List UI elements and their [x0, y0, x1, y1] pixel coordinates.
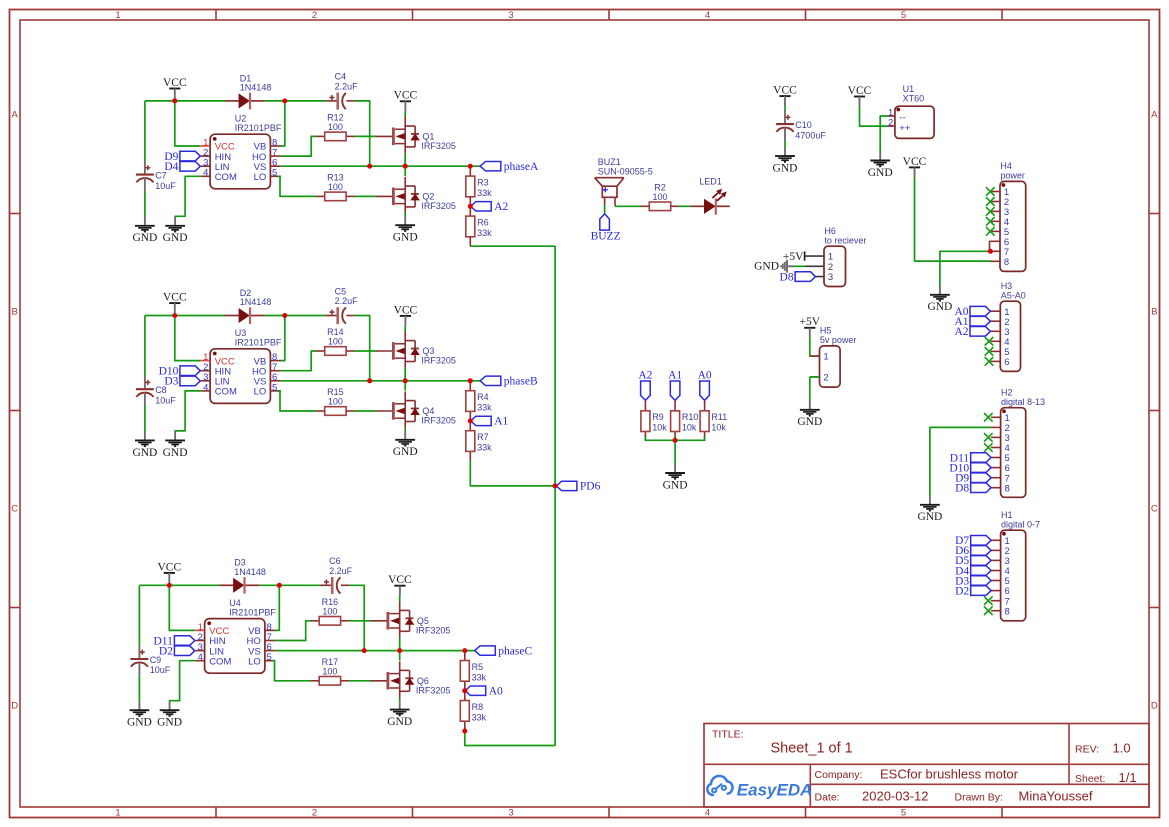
svg-text:8: 8 — [1005, 606, 1010, 617]
wire D1 cathode to C5 / VB branch — [265, 315, 326, 317]
ground at Q2 — [393, 216, 418, 243]
svg-text:1.0: 1.0 — [1113, 741, 1131, 756]
svg-text:A0: A0 — [698, 370, 712, 382]
ground at C8 — [132, 431, 157, 458]
svg-text:H1: H1 — [1001, 510, 1013, 520]
input net flag D3 LIN — [164, 376, 200, 388]
net flag A1 at H3 pin 2 — [954, 316, 990, 328]
svg-text:+5V: +5V — [800, 316, 821, 328]
capacitor C9 10uF bypass — [138, 585, 140, 645]
net flag A2 at R9 — [638, 370, 652, 401]
svg-text:A2: A2 — [494, 201, 508, 213]
wire R15 to Q4 gate — [355, 410, 377, 412]
net flag A1 — [471, 416, 509, 428]
input net flag D4 LIN — [164, 161, 200, 173]
net flag A1 at R10 — [668, 370, 682, 401]
VCC power symbol at H4 — [903, 156, 927, 178]
connector H5 5v power — [810, 326, 857, 387]
gate driver U4 IR2101PBF — [195, 598, 277, 673]
svg-text:ESCfor brushless motor: ESCfor brushless motor — [880, 766, 1019, 781]
svg-text:2.2uF: 2.2uF — [335, 296, 359, 306]
wire R9 R10 R11 commons to ground — [645, 437, 704, 441]
input net flag D11 HIN — [154, 635, 195, 647]
net flag A0 at H3 pin 1 — [954, 306, 990, 318]
svg-text:GND: GND — [132, 447, 157, 459]
svg-text:4: 4 — [705, 808, 710, 819]
svg-text:R16: R16 — [322, 597, 339, 607]
wire VCC to H4 pin8 — [915, 177, 991, 261]
wire COM to ground — [175, 391, 201, 432]
svg-text:5: 5 — [272, 168, 277, 179]
ground at Q4 — [393, 431, 418, 458]
wire R13 to Q2 gate — [355, 195, 377, 197]
svg-text:to reciever: to reciever — [824, 236, 866, 246]
junction VS at half bridge — [397, 648, 402, 653]
svg-text:IRF3205: IRF3205 — [421, 356, 456, 366]
wire VB net vertical — [281, 101, 285, 146]
svg-text:C4: C4 — [335, 72, 347, 82]
wire COM to ground — [175, 176, 201, 217]
wire VS to Q2 drain — [404, 166, 406, 176]
+5V power symbol at H6 — [783, 251, 805, 263]
wire VB net vertical — [281, 316, 285, 361]
wire VS main — [281, 380, 480, 382]
svg-text:LED1: LED1 — [699, 177, 722, 187]
net flag A2 at H3 pin 3 — [954, 326, 990, 338]
svg-text:33k: 33k — [477, 443, 492, 453]
ground at H6 pin2 (rotated) — [754, 260, 794, 273]
svg-text:VCC: VCC — [388, 574, 412, 586]
svg-text:10k: 10k — [652, 423, 667, 433]
net flag D4 at H1 pin 4 — [955, 565, 991, 577]
svg-text:C6: C6 — [329, 556, 341, 566]
buzzer BUZ1 SUN-09055-5 — [595, 157, 653, 206]
svg-text:R5: R5 — [472, 662, 484, 672]
svg-text:1N4148: 1N4148 — [240, 83, 272, 93]
svg-text:LO: LO — [254, 172, 267, 183]
ground at COM — [163, 217, 188, 244]
svg-text:5: 5 — [901, 10, 906, 21]
wire H5 pin2 to ground — [809, 377, 811, 402]
svg-text:EasyEDA: EasyEDA — [737, 780, 813, 799]
svg-text:GND: GND — [393, 232, 418, 244]
svg-text:33k: 33k — [477, 188, 492, 198]
net flag phaseA — [480, 161, 539, 173]
junction VCC rail — [172, 313, 177, 318]
capacitor C7 10uF bypass — [144, 101, 146, 161]
wire VCC top rail block U2 — [145, 100, 225, 102]
svg-text:SUN-09055-5: SUN-09055-5 — [598, 166, 653, 176]
net flag PD6 — [556, 481, 600, 493]
transistor Q1 IRF3205 high side — [376, 117, 456, 153]
svg-text:H3: H3 — [1001, 281, 1013, 291]
junction VB net — [277, 583, 282, 588]
wire HO to R16 — [275, 621, 311, 641]
ground at Q6 — [387, 701, 412, 728]
VCC power symbol at U4 — [157, 561, 181, 583]
net flag D3 at H1 pin 5 — [955, 575, 991, 587]
net flag D8 at H2 pin 8 — [955, 483, 991, 495]
svg-text:1: 1 — [115, 10, 120, 21]
capacitor C5 2.2uF bootstrap — [325, 286, 358, 324]
svg-text:A2: A2 — [638, 370, 652, 382]
svg-text:IR2101PBF: IR2101PBF — [235, 123, 282, 133]
connector H2 digital 8-13 — [991, 388, 1045, 498]
net flag D5 at H1 pin 3 — [955, 555, 991, 567]
net flag D10 at H2 pin 6 — [949, 462, 991, 474]
wire BUZ1 to BUZZ flag — [604, 205, 606, 214]
svg-text:D4: D4 — [164, 161, 178, 173]
svg-text:GND: GND — [754, 261, 779, 273]
resistor R16 100 gate — [311, 597, 349, 625]
wire C9 to ground — [138, 676, 140, 702]
svg-text:8: 8 — [1005, 483, 1010, 494]
no-connect marks H4 pins 1-5 — [986, 187, 995, 196]
svg-text:COM: COM — [215, 172, 237, 183]
svg-text:D2: D2 — [159, 646, 173, 658]
svg-text:VCC: VCC — [157, 561, 181, 573]
ground at H2 — [917, 496, 942, 523]
svg-text:GND: GND — [127, 717, 152, 729]
capacitor C8 10uF bypass — [144, 316, 146, 376]
resistor R12 100 gate — [316, 112, 354, 140]
svg-text:digital 0-7: digital 0-7 — [1001, 520, 1040, 530]
capacitor C4 2.2uF bootstrap — [325, 72, 358, 110]
wire VS main — [275, 650, 474, 652]
net flag phaseC — [475, 645, 533, 657]
net flag D9 at H2 pin 7 — [955, 473, 991, 485]
svg-text:33k: 33k — [472, 712, 487, 722]
svg-text:A2: A2 — [954, 326, 968, 338]
ground at R10 — [663, 464, 688, 491]
svg-text:XT60: XT60 — [903, 94, 925, 104]
wire C10 to ground — [784, 141, 786, 148]
net flag A2 — [471, 201, 509, 213]
svg-text:VCC: VCC — [163, 292, 187, 304]
ground at H5 — [797, 401, 822, 428]
svg-text:H4: H4 — [1000, 161, 1012, 171]
wire R17 to Q6 gate — [349, 680, 371, 682]
svg-text:D: D — [11, 700, 18, 711]
svg-text:4700uF: 4700uF — [795, 130, 826, 140]
wire C4 to VS — [355, 101, 370, 166]
capacitor C10 4700uF — [776, 111, 826, 141]
wire LO to R15 — [278, 391, 317, 411]
svg-text:MinaYoussef: MinaYoussef — [1019, 789, 1093, 804]
svg-text:A5-A0: A5-A0 — [1001, 291, 1026, 301]
svg-text:BUZZ: BUZZ — [591, 231, 621, 243]
svg-text:C: C — [1151, 503, 1158, 514]
svg-text:IRF3205: IRF3205 — [416, 685, 451, 695]
svg-text:4: 4 — [198, 652, 203, 663]
resistor R8 33k divider — [460, 691, 486, 731]
svg-text:33k: 33k — [472, 672, 487, 682]
resistor R14 100 gate — [316, 327, 354, 355]
wire Q3 source to VS — [404, 368, 406, 381]
EasyEDA logo — [707, 776, 812, 799]
wire Q2 source to ground — [404, 213, 406, 216]
svg-text:REV:: REV: — [1075, 744, 1099, 756]
wire Q1 source to VS — [404, 153, 406, 166]
wire C5 to VS — [355, 316, 370, 381]
junction VB net — [282, 98, 287, 103]
resistor R2 100 — [641, 182, 679, 210]
resistor R6 33k divider — [466, 206, 492, 246]
wire H2 pin2 to ground — [930, 427, 991, 496]
net flag A0 — [465, 685, 503, 697]
svg-text:1N4148: 1N4148 — [234, 567, 266, 577]
junction VB net — [282, 313, 287, 318]
capacitor C6 2.2uF bootstrap — [320, 556, 353, 594]
svg-text:R10: R10 — [682, 412, 699, 422]
svg-text:C: C — [11, 503, 18, 514]
wire VCC top rail block U3 — [145, 315, 225, 317]
svg-text:D8: D8 — [955, 483, 969, 495]
connector H4 power — [990, 161, 1025, 271]
transistor Q5 IRF3205 high side — [370, 601, 450, 637]
svg-text:5: 5 — [272, 382, 277, 393]
junction R8 bottom — [462, 729, 467, 734]
wire VCC to pin1 U3 — [175, 316, 201, 361]
wire VS main — [281, 165, 480, 167]
net flag BUZZ — [591, 214, 621, 243]
svg-text:D: D — [1151, 700, 1158, 711]
svg-text:1: 1 — [823, 352, 828, 363]
junction A2 node — [468, 204, 473, 209]
wire R6 bottom to PD6 bus — [470, 245, 555, 247]
svg-text:B: B — [12, 306, 18, 317]
svg-text:GND: GND — [132, 232, 157, 244]
resistor R10 10k — [671, 401, 699, 441]
wire C7 to ground — [144, 191, 146, 217]
svg-text:100: 100 — [652, 192, 667, 202]
svg-text:A: A — [12, 109, 19, 120]
ground at C10 — [773, 147, 798, 174]
VCC power symbol at C10 — [773, 85, 797, 107]
resistor R5 33k divider — [460, 651, 486, 691]
connector H1 digital 0-7 — [991, 510, 1040, 621]
resistor R4 33k divider — [466, 381, 492, 421]
resistor R17 100 gate — [311, 657, 349, 685]
svg-text:100: 100 — [328, 397, 343, 407]
diode D3 1N4148 — [220, 558, 266, 594]
svg-text:R3: R3 — [477, 177, 489, 187]
svg-text:2.2uF: 2.2uF — [329, 566, 353, 576]
junction VS at bootstrap — [362, 648, 367, 653]
net flag D8 at H6 — [780, 271, 816, 283]
junction VS at bootstrap — [367, 378, 372, 383]
junction VS at divider — [468, 378, 473, 383]
wire R7 bottom to PD6 bus — [470, 461, 555, 486]
gate driver U3 IR2101PBF — [200, 328, 282, 403]
svg-text:IRF3205: IRF3205 — [421, 201, 456, 211]
svg-text:1N4148: 1N4148 — [240, 297, 272, 307]
wire R16 to Q5 gate — [349, 620, 371, 622]
wire HO to R12 — [281, 136, 317, 156]
svg-text:GND: GND — [663, 479, 688, 491]
svg-text:R17: R17 — [322, 657, 339, 667]
svg-text:R11: R11 — [711, 412, 727, 422]
svg-text:10uF: 10uF — [155, 395, 176, 405]
svg-text:U4: U4 — [229, 598, 241, 608]
junction VS at divider — [462, 648, 467, 653]
svg-text:100: 100 — [328, 182, 343, 192]
VCC power symbol at U3 — [163, 292, 187, 314]
junction VS at half bridge — [403, 164, 408, 169]
svg-text:GND: GND — [387, 716, 412, 728]
svg-text:A1: A1 — [494, 416, 508, 428]
svg-text:LO: LO — [248, 656, 261, 667]
wire R2 to LED1 — [678, 205, 690, 207]
svg-text:R12: R12 — [327, 112, 344, 122]
resistor R13 100 gate — [316, 172, 354, 200]
svg-text:GND: GND — [797, 416, 822, 428]
net flag D7 at H1 pin 1 — [955, 535, 991, 547]
junction VCC rail — [172, 98, 177, 103]
svg-text:100: 100 — [328, 122, 343, 132]
svg-text:2.2uF: 2.2uF — [335, 81, 359, 91]
wire C8 to ground — [144, 406, 146, 432]
wire HO to R14 — [281, 351, 317, 371]
svg-text:GND: GND — [773, 163, 798, 175]
svg-text:2: 2 — [312, 10, 317, 21]
wire LO to R17 — [272, 661, 311, 681]
svg-text:Sheet_1 of 1: Sheet_1 of 1 — [771, 741, 853, 757]
wire H4 pin6 tie to pin7 — [989, 241, 992, 251]
svg-text:GND: GND — [157, 717, 182, 729]
wire H4 pin7 to ground — [940, 251, 991, 286]
wire VCC to C10 — [784, 106, 786, 111]
wire R14 to Q3 gate — [355, 350, 377, 352]
junction VS at half bridge — [403, 378, 408, 383]
svg-text:GND: GND — [393, 446, 418, 458]
connector U1 XT60 — [888, 84, 934, 138]
VCC power symbol at Q3 — [394, 304, 418, 326]
svg-text:U1: U1 — [903, 84, 915, 94]
svg-text:100: 100 — [328, 337, 343, 347]
gate driver U2 IR2101PBF — [200, 114, 282, 189]
svg-text:33k: 33k — [477, 403, 492, 413]
svg-text:R2: R2 — [654, 182, 666, 192]
svg-text:R4: R4 — [477, 392, 489, 402]
input net flag D10 HIN — [159, 366, 201, 378]
svg-text:LO: LO — [254, 387, 267, 398]
junction A0 node — [462, 688, 467, 693]
svg-text:5: 5 — [267, 652, 272, 663]
svg-text:R7: R7 — [477, 432, 489, 442]
svg-text:Date:: Date: — [815, 791, 840, 803]
VCC power symbol at U1 — [848, 85, 872, 107]
ground at H4 — [927, 286, 952, 313]
svg-text:Company:: Company: — [815, 769, 863, 781]
svg-text:R14: R14 — [327, 327, 344, 337]
ground at COM — [163, 431, 188, 458]
wire Q4 source to ground — [404, 428, 406, 431]
wire Q6 source to ground — [399, 698, 401, 701]
svg-text:phaseB: phaseB — [504, 376, 538, 388]
svg-text:1/1: 1/1 — [1119, 770, 1137, 785]
svg-text:4: 4 — [705, 10, 710, 21]
wire VS to Q6 drain — [399, 651, 401, 661]
junction VCC rail — [167, 583, 172, 588]
svg-text:H2: H2 — [1001, 388, 1013, 398]
net flag A0 at R11 — [698, 370, 712, 401]
svg-text:R9: R9 — [652, 412, 664, 422]
svg-text:U2: U2 — [235, 114, 247, 124]
svg-text:10k: 10k — [682, 423, 697, 433]
svg-text:4: 4 — [203, 168, 208, 179]
wire VCC to pin1 U2 — [175, 101, 201, 146]
VCC power symbol at U2 — [163, 77, 187, 99]
diode D2 1N4148 — [225, 288, 271, 324]
wire Q5 source to VS — [399, 638, 401, 651]
transistor Q6 IRF3205 low side — [370, 661, 450, 697]
ground at U1 — [868, 152, 893, 179]
resistor R15 100 gate — [316, 387, 354, 415]
net flag D6 at H1 pin 2 — [955, 545, 991, 557]
svg-text:C10: C10 — [795, 120, 812, 130]
wire VCC to U1 pin2 — [860, 107, 889, 127]
svg-text:B: B — [1151, 306, 1157, 317]
svg-text:A1: A1 — [668, 370, 682, 382]
net flag D11 at H2 pin 5 — [950, 452, 991, 464]
svg-text:3: 3 — [508, 10, 513, 21]
VCC power symbol at Q5 — [388, 574, 412, 596]
svg-text:TITLE:: TITLE: — [712, 729, 744, 741]
svg-text:BUZ1: BUZ1 — [598, 157, 621, 167]
wire COM to ground — [170, 661, 196, 702]
svg-text:phaseA: phaseA — [504, 161, 539, 173]
input net flag D9 HIN — [164, 151, 200, 163]
net flag D2 at H1 pin 6 — [955, 585, 991, 597]
no-connect marks H1 pins 7 8 — [984, 596, 993, 605]
wire R8 bottom to PD6 bus — [465, 731, 555, 746]
svg-text:R15: R15 — [327, 387, 344, 397]
wire R12 to Q1 gate — [355, 135, 377, 137]
svg-text:A: A — [1151, 109, 1158, 120]
svg-text:GND: GND — [927, 301, 952, 313]
wire LO to R13 — [278, 176, 317, 196]
svg-text:3: 3 — [828, 272, 833, 283]
svg-text:2: 2 — [823, 373, 828, 384]
VCC power symbol at Q1 — [394, 90, 418, 112]
svg-text:IR2101PBF: IR2101PBF — [229, 608, 276, 618]
svg-text:++: ++ — [899, 123, 911, 134]
wire VCC to Q1 drain — [404, 111, 406, 117]
junction H4 pin7 — [988, 249, 993, 254]
svg-text:GND: GND — [163, 232, 188, 244]
svg-text:A0: A0 — [489, 685, 503, 697]
svg-text:VCC: VCC — [773, 85, 797, 97]
svg-text:R6: R6 — [477, 217, 489, 227]
+5V power symbol at H5 — [800, 316, 821, 338]
svg-text:U3: U3 — [235, 328, 247, 338]
svg-text:D8: D8 — [780, 271, 794, 283]
svg-text:VCC: VCC — [848, 85, 872, 97]
svg-text:2: 2 — [312, 808, 317, 819]
svg-text:GND: GND — [163, 447, 188, 459]
resistor R11 10k — [700, 401, 727, 441]
transistor Q3 IRF3205 high side — [376, 332, 456, 368]
wire H6 pin2 to ground — [792, 265, 805, 267]
svg-text:COM: COM — [215, 387, 237, 398]
ground at C7 — [132, 217, 157, 244]
diode D1 1N4148 — [225, 73, 271, 109]
svg-text:2: 2 — [888, 118, 893, 129]
no-connect marks H3 pins 4-6 — [985, 337, 994, 346]
svg-text:H5: H5 — [820, 326, 832, 336]
svg-text:IRF3205: IRF3205 — [416, 625, 451, 635]
